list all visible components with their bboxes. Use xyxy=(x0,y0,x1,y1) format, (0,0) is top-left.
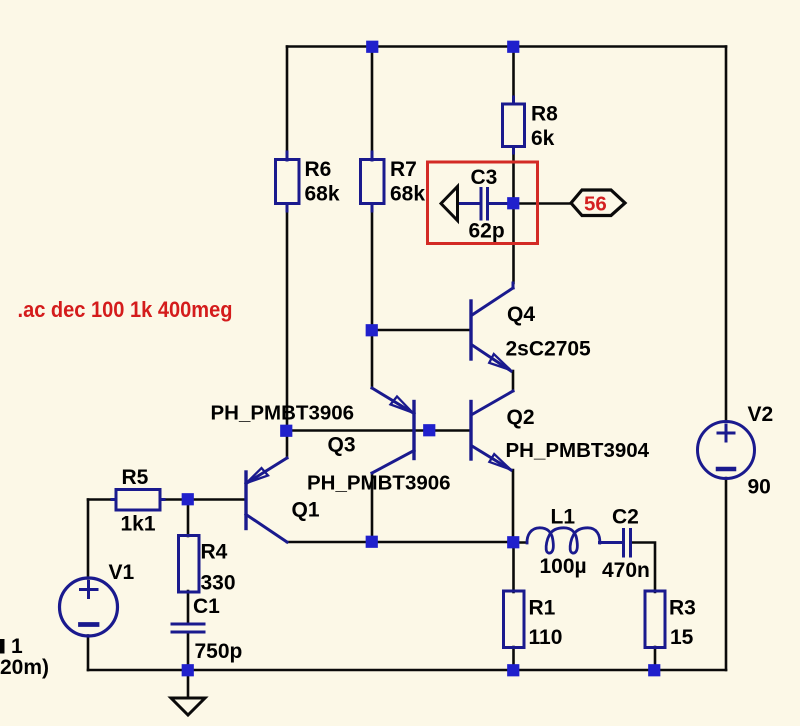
wire Q4-base-node to Q3 emitter xyxy=(371,330,374,388)
svg-text:1: 1 xyxy=(11,635,23,658)
wire C2 to R3 corner xyxy=(632,543,655,593)
wire bottom rail xyxy=(88,669,726,672)
junction node Q1 emitter xyxy=(280,425,292,437)
resistor R3 xyxy=(645,591,665,648)
svg-text:56: 56 xyxy=(584,193,607,216)
wire R5 right to Q1 base xyxy=(164,498,246,501)
svg-text:R3: R3 xyxy=(669,597,696,620)
svg-text:L1: L1 xyxy=(551,506,576,529)
transistor Q4 xyxy=(471,283,513,371)
wire ground stub xyxy=(187,670,190,697)
svg-text:R4: R4 xyxy=(201,541,228,564)
junction node mid rail Q3 collector xyxy=(366,536,378,548)
transistor Q3 xyxy=(372,388,414,473)
arrow pointer left of C3 xyxy=(441,187,458,221)
svg-text:V2: V2 xyxy=(748,403,774,426)
svg-text:6k: 6k xyxy=(531,127,555,150)
wire R5 left xyxy=(88,498,112,501)
wire V1 top vertical xyxy=(87,500,90,579)
svg-text:PH_PMBT3906: PH_PMBT3906 xyxy=(211,402,355,425)
transistor Q2 xyxy=(471,391,513,470)
svg-text:C3: C3 xyxy=(471,166,498,189)
junction node top R7 xyxy=(366,41,378,53)
svg-text:90: 90 xyxy=(748,476,771,499)
wire R3 bottom xyxy=(654,647,657,670)
svg-text:Q1: Q1 xyxy=(292,499,320,522)
svg-text:R1: R1 xyxy=(529,597,556,620)
transistor Q1 xyxy=(246,458,287,542)
net flag 56 xyxy=(571,190,625,216)
svg-text:PH_PMBT3906: PH_PMBT3906 xyxy=(307,472,451,495)
wire R4 top xyxy=(187,500,190,537)
wire Q2 emitter down xyxy=(512,470,515,542)
wire L1 left lead xyxy=(513,541,527,544)
resistor R1 xyxy=(504,591,525,648)
svg-text:750p: 750p xyxy=(195,640,243,663)
svg-text:Q2: Q2 xyxy=(507,406,535,429)
wire R8 top xyxy=(512,47,515,98)
svg-text:V1: V1 xyxy=(109,561,135,584)
wire top rail xyxy=(287,45,726,48)
svg-text:62p: 62p xyxy=(469,220,505,243)
wire Q4 base xyxy=(372,329,471,332)
svg-text:C2: C2 xyxy=(612,506,639,529)
wire R1 bottom xyxy=(512,647,515,670)
wire right rail upper xyxy=(725,47,728,422)
junction node Q2/Q3 bases xyxy=(423,424,435,436)
wire R7 top xyxy=(371,47,374,153)
junction node R5/R4/Q1 base xyxy=(182,493,194,505)
resistor R4 xyxy=(179,536,200,593)
resistor R8 xyxy=(503,97,525,153)
junction node top R8 xyxy=(507,41,519,53)
junction node R3 bottom xyxy=(648,664,660,676)
inductor L1 xyxy=(527,528,600,553)
svg-text:100µ: 100µ xyxy=(540,555,587,578)
svg-text:PH_PMBT3904: PH_PMBT3904 xyxy=(506,439,650,462)
svg-text:1k1: 1k1 xyxy=(121,513,156,536)
wire node 56 down to Q4 collector xyxy=(512,204,515,284)
svg-text:68k: 68k xyxy=(305,183,340,206)
svg-text:330: 330 xyxy=(201,572,236,595)
capacitor C1 xyxy=(172,624,204,632)
svg-text:R5: R5 xyxy=(122,466,149,489)
svg-text:.ac dec 100 1k 400meg: .ac dec 100 1k 400meg xyxy=(18,297,233,322)
wire R8 bottom to node 56 xyxy=(512,153,515,204)
svg-text:Q3: Q3 xyxy=(328,434,356,457)
resistor R6 xyxy=(276,152,300,211)
ground xyxy=(171,698,205,715)
svg-text:R7: R7 xyxy=(390,158,417,181)
junction node mid rail Q2 emitter xyxy=(507,536,519,548)
svg-text:110: 110 xyxy=(529,626,563,649)
wire R7 bottom to Q4 base node xyxy=(371,211,374,330)
wire C1 down xyxy=(187,633,190,670)
svg-text:R8: R8 xyxy=(531,103,558,126)
svg-text:2sC2705: 2sC2705 xyxy=(506,338,592,361)
red highlight box around C3 xyxy=(428,162,538,244)
wire R6 top xyxy=(286,47,289,153)
wire Q4 emitter to Q2 collector xyxy=(512,371,515,391)
wire R6 bottom to Q1 emitter node xyxy=(286,211,289,458)
wire Q3 collector down xyxy=(371,473,374,542)
wire V1 bottom xyxy=(87,636,90,671)
junction node ground xyxy=(182,664,194,676)
wire mid rail xyxy=(287,541,513,544)
capacitor C3 xyxy=(459,189,509,220)
wire R1 top xyxy=(512,543,515,593)
voltage source V1 xyxy=(60,578,118,636)
junction node 56 xyxy=(507,197,519,209)
svg-text:R6: R6 xyxy=(305,158,332,181)
svg-text:470n: 470n xyxy=(602,559,650,582)
svg-text:15: 15 xyxy=(670,626,694,649)
wire node 56 to flag xyxy=(514,202,572,205)
label V1 value fragment line 1 xyxy=(0,639,5,654)
svg-text:20m): 20m) xyxy=(0,656,49,679)
svg-text:C1: C1 xyxy=(193,595,220,618)
capacitor C2 xyxy=(600,530,631,557)
wire base rail Q1/Q3/Q2 xyxy=(287,429,471,432)
voltage source V2 xyxy=(698,422,755,479)
resistor R5 xyxy=(112,490,164,511)
resistor R7 xyxy=(361,152,385,211)
svg-text:Q4: Q4 xyxy=(507,303,535,326)
junction node Q4 base xyxy=(366,324,378,336)
wire right rail lower xyxy=(725,478,728,670)
svg-text:68k: 68k xyxy=(390,183,425,206)
wire R4 to C1 xyxy=(187,591,190,623)
junction node R1 bottom xyxy=(507,664,519,676)
